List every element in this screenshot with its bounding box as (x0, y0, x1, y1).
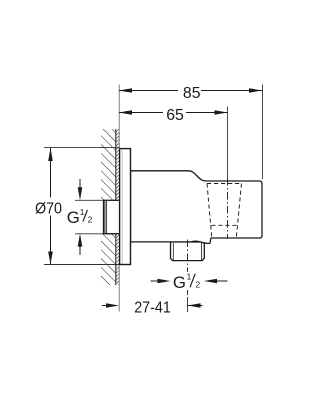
svg-text:2: 2 (196, 279, 201, 289)
svg-text:Ø70: Ø70 (35, 200, 62, 217)
svg-text:G: G (173, 273, 186, 292)
svg-text:65: 65 (166, 107, 184, 124)
svg-text:1: 1 (80, 207, 85, 217)
svg-text:2: 2 (88, 214, 93, 224)
svg-text:27-41: 27-41 (134, 299, 171, 316)
svg-text:G: G (67, 208, 80, 227)
svg-text:85: 85 (183, 85, 201, 102)
svg-text:1: 1 (187, 271, 192, 281)
